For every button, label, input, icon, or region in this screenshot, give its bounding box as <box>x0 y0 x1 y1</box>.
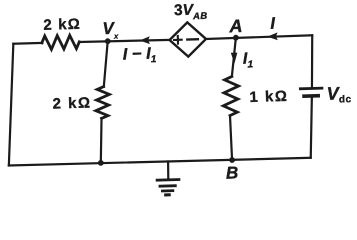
resistor R3 1 kOhm (right vertical) <box>222 76 239 115</box>
svg-text:2 kΩ: 2 kΩ <box>52 94 91 112</box>
wire resistor R3 to node B <box>230 115 232 160</box>
current arrow I-I1 (pointing left) <box>141 37 149 43</box>
svg-text:A: A <box>228 16 243 36</box>
wire node A down to resistor R3 <box>231 38 237 77</box>
bottom-left junction dot <box>98 160 104 166</box>
battery Vdc short plate <box>304 94 318 98</box>
svg-text:3VAB: 3VAB <box>174 1 208 22</box>
wire right side top (to battery) <box>310 35 313 88</box>
wire Vx down to resistor R2 <box>103 41 110 86</box>
svg-text:Vx: Vx <box>102 19 119 41</box>
wire top-left segment <box>13 42 42 45</box>
svg-text:B: B <box>226 163 239 182</box>
ground bar 3 <box>162 189 172 192</box>
svg-text:I1: I1 <box>243 50 254 70</box>
svg-text:Vdc: Vdc <box>326 83 352 106</box>
svg-text:I − I1: I − I1 <box>122 45 157 66</box>
wire source to node A to top-right corner <box>206 35 312 39</box>
wire bottom <box>9 157 311 167</box>
plus sign inside source <box>174 36 182 44</box>
wire right side bottom (battery to bottom wire) <box>309 96 314 157</box>
current arrow I1 (pointing down) <box>232 53 237 62</box>
svg-text:2 kΩ: 2 kΩ <box>43 16 81 34</box>
wire resistor R2 to bottom wire <box>100 118 103 162</box>
dependent source U1 3V_AB (diamond) <box>169 22 206 57</box>
wire Vx to dependent source <box>79 39 169 42</box>
minus sign inside source <box>187 38 198 41</box>
resistor R2 2 kOhm (left vertical) <box>95 86 110 118</box>
node A junction dot <box>233 35 239 41</box>
ground bar 2 <box>160 184 175 187</box>
svg-text:1 kΩ: 1 kΩ <box>249 88 288 106</box>
wire left side <box>5 44 16 166</box>
battery Vdc long plate <box>300 87 322 90</box>
node B junction dot <box>229 157 235 163</box>
svg-text:I: I <box>270 15 276 33</box>
current arrow I (pointing left) <box>269 33 277 39</box>
node Vx junction dot <box>105 38 111 44</box>
ground stem <box>167 162 170 179</box>
ground bar 1 <box>157 178 179 181</box>
resistor R1 2 kOhm (top horizontal) <box>42 35 80 50</box>
ground bar 4 <box>166 193 170 196</box>
